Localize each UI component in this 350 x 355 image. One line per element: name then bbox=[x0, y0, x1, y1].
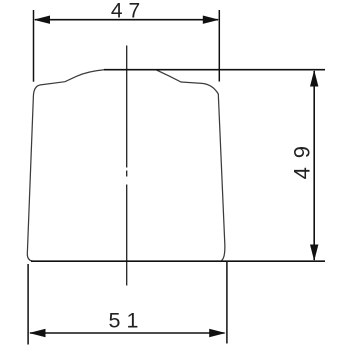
svg-text:47: 47 bbox=[111, 0, 146, 23]
svg-text:51: 51 bbox=[109, 308, 145, 332]
svg-text:49: 49 bbox=[290, 137, 315, 179]
